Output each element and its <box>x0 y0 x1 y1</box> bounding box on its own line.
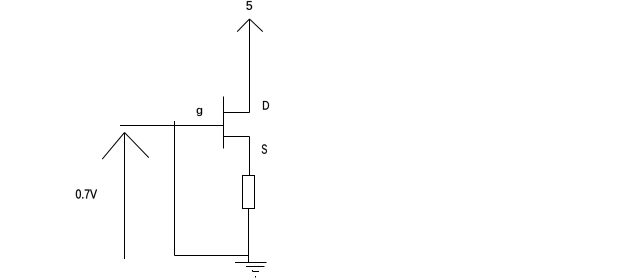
wire gate horizontal <box>120 125 224 127</box>
wire below resistor <box>248 209 250 263</box>
ground <box>235 263 267 278</box>
source V1 arrow (0.7V) <box>124 133 126 260</box>
label S (source) <box>262 144 267 153</box>
wire source vertical <box>249 137 251 177</box>
wire drain horizontal <box>224 112 250 114</box>
label 5 (supply voltage) <box>246 1 252 10</box>
wire bottom horizontal <box>175 255 249 257</box>
resistor R1 <box>243 176 255 209</box>
supply arrow (node 5V) <box>249 19 251 113</box>
label D (drain) <box>263 101 269 110</box>
wire source horizontal <box>224 136 250 138</box>
transistor Q1 channel bar <box>223 97 225 149</box>
label g (gate) <box>197 108 202 116</box>
label 0.7V <box>76 189 97 198</box>
wire loop left vertical <box>174 121 176 256</box>
